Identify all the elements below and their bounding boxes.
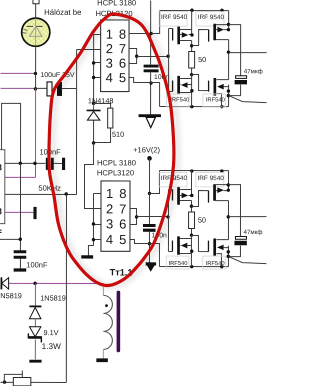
svg-text:1: 1 — [106, 186, 113, 201]
wire (U1 pin8) — [129, 32, 151, 34]
wire (U1 pin5) — [129, 77, 151, 82]
resistor R3 510 — [94, 103, 113, 142]
transistor Q2 IRF9540 — [209, 24, 229, 42]
svg-text:+16V(2): +16V(2) — [133, 145, 160, 154]
wire (to rail1) — [151, 11, 160, 34]
wire (vertical x93.5 lower) — [92, 193, 94, 245]
wire (U1 pin3 stub) — [94, 61, 101, 63]
op-amp U1 HCPL3120 — [101, 20, 129, 92]
junction — [227, 94, 230, 97]
wire (U2 pins 6-7 bracket) — [130, 208, 136, 224]
svg-text:2: 2 — [106, 41, 113, 56]
trimmer R2 — [0, 370, 66, 386]
wire (U1 pin4 stub) — [94, 76, 101, 78]
svg-text:8: 8 — [0, 206, 2, 216]
wire (y194 net) — [4, 193, 76, 195]
wire (U2 pin5) — [130, 239, 149, 243]
svg-text:7: 7 — [119, 201, 126, 216]
junction — [190, 205, 193, 208]
label box Q8 — [203, 256, 226, 269]
junction — [190, 33, 193, 36]
wire (Q5 drain node) — [190, 201, 192, 212]
transistor Q6 IRF9540 — [208, 184, 228, 202]
junction — [33, 162, 36, 165]
junction — [220, 9, 223, 12]
resistor R5 50 — [189, 212, 195, 236]
svg-text:47мкф: 47мкф — [244, 68, 263, 75]
label box Q1 — [159, 12, 187, 26]
ground — [139, 114, 161, 127]
junction — [227, 255, 230, 258]
wire (Q1 drain node) — [191, 41, 193, 52]
junction — [92, 76, 95, 79]
transistor Q1 IRF9540 — [169, 27, 192, 45]
junction — [166, 215, 169, 218]
wire (y163 net) — [5, 162, 46, 164]
wire (Q5 source to rail) — [190, 171, 192, 196]
wire (diagonal out 1) — [229, 96, 267, 103]
wire (U2 pin3 stub) — [93, 223, 100, 225]
node +16V(2) terminal — [147, 156, 152, 161]
wire (source node vertical) — [228, 85, 230, 107]
wire (jog to ground) — [88, 245, 93, 255]
svg-text:IRF 9540: IRF 9540 — [198, 175, 225, 182]
label box Q4 — [203, 94, 226, 107]
junction — [135, 55, 138, 58]
wire (rail1 gnd) — [160, 106, 229, 108]
svg-text:1.3W: 1.3W — [42, 342, 61, 351]
junction — [149, 81, 152, 84]
wire (to bottom rail1) — [151, 83, 160, 107]
wire (purple) — [34, 318, 36, 326]
junction — [227, 50, 230, 53]
wire (source node vertical bank2) — [227, 246, 229, 267]
wire (rail2 +V) — [160, 170, 229, 172]
transistor Q7 IRF540 — [168, 236, 191, 254]
svg-text:3: 3 — [106, 56, 113, 71]
svg-text:8: 8 — [119, 27, 126, 42]
diode D4 1N4148 — [87, 103, 101, 142]
junction — [19, 162, 22, 165]
wire (purple net, left) — [1, 72, 36, 74]
wire (gate feed bank2) — [136, 216, 168, 218]
wire — [35, 73, 37, 88]
svg-text:IRF 9540: IRF 9540 — [161, 175, 188, 182]
wire (purple into box pin) — [5, 176, 36, 178]
svg-text:IRF 9540: IRF 9540 — [161, 14, 188, 21]
transistor Q3 IRF540 — [169, 76, 192, 94]
capacitor plate C3 — [33, 207, 36, 219]
junction — [92, 222, 95, 225]
wire (to cap 47 bank2) — [228, 185, 240, 237]
svg-text:5: 5 — [119, 70, 126, 85]
svg-text:2: 2 — [106, 201, 113, 216]
svg-text:9.1V: 9.1V — [43, 328, 58, 337]
wire (diagonal out 2) — [228, 257, 266, 264]
wire (to bottom rail2) — [149, 244, 159, 267]
wire (purple net, left) — [1, 87, 36, 89]
svg-text:IRF540: IRF540 — [170, 96, 189, 103]
svg-text:1N5819: 1N5819 — [0, 291, 22, 300]
wire (output1 to right) — [229, 52, 267, 54]
capacitor C5 100n — [144, 65, 159, 115]
wire (Q1 source to rail) — [191, 11, 193, 35]
junction — [34, 87, 37, 90]
junction — [227, 250, 230, 253]
wire (U2 pin1) — [93, 192, 100, 194]
op-amp U2 HCPL3120 — [101, 181, 130, 251]
junction — [92, 238, 95, 241]
ground — [146, 262, 156, 271]
ground — [14, 268, 27, 271]
svg-text:47мкф: 47мкф — [244, 229, 263, 236]
resistor R4 50 — [189, 51, 195, 74]
wire (purple net y283) — [1, 282, 103, 284]
svg-text:50: 50 — [198, 215, 206, 224]
svg-text:8: 8 — [119, 186, 126, 201]
wire (cross to Q2 gate) — [192, 30, 209, 46]
junction — [227, 215, 230, 218]
diode D2 1N5819 — [29, 306, 41, 318]
shadow of red marker ellipse — [53, 15, 178, 287]
svg-text:HCPL3120: HCPL3120 — [97, 168, 134, 177]
transistor Q8 IRF540 — [208, 238, 228, 266]
transistor Q4 IRF540 — [209, 78, 229, 107]
junction — [34, 72, 37, 75]
ground — [29, 360, 41, 363]
capacitor C7 100n — [143, 194, 156, 263]
label box Q2 — [196, 12, 224, 26]
wire (rail1 +V) — [160, 10, 229, 12]
svg-text:100uF 25V: 100uF 25V — [40, 72, 75, 79]
wire (vertical x66) — [65, 194, 67, 382]
svg-text:HCPL 3180: HCPL 3180 — [97, 158, 136, 167]
wire (purple pin y213) — [4, 211, 33, 213]
wire — [35, 46, 37, 73]
wire (Q2 drain / output node) — [228, 40, 230, 80]
ground — [81, 255, 93, 258]
svg-text:IRF540: IRF540 — [168, 260, 187, 267]
junction — [92, 61, 95, 64]
label box Q5 — [159, 172, 187, 186]
wire (U1 pin1) — [94, 33, 101, 35]
wire (box top pin) — [2, 103, 21, 163]
wire (Q6 drain / output node) — [227, 201, 229, 240]
junction — [19, 238, 22, 241]
wire (to Q8 gate) — [191, 236, 208, 252]
wire (to Q4 gate) — [192, 75, 209, 91]
svg-text:7: 7 — [119, 41, 126, 56]
wire (gate bus bank2) — [167, 190, 169, 252]
label fragment (clipped) — [0, 230, 2, 231]
transistor Q5 IRF9540 — [168, 187, 191, 205]
junction — [190, 250, 193, 253]
lamp LA1 — [22, 18, 50, 46]
svg-text:5: 5 — [119, 232, 126, 247]
connector box (left, clipped) — [0, 150, 5, 224]
junction — [220, 169, 223, 172]
svg-text:50: 50 — [198, 55, 206, 64]
svg-text:6: 6 — [119, 56, 126, 71]
junction — [190, 44, 193, 47]
diode D1 1N5819 (left, clipped) — [1, 277, 8, 289]
wire (vertical x76) — [75, 49, 77, 194]
wire (rail2 gnd) — [159, 266, 228, 268]
wire — [35, 3, 37, 18]
junction — [149, 32, 152, 35]
wire (rail corner to Q2 source) — [228, 11, 230, 30]
junction — [190, 169, 193, 172]
junction — [227, 28, 230, 31]
wire (vertical x20) — [19, 163, 21, 250]
junction — [33, 282, 36, 285]
wire (output2 to right) — [228, 216, 266, 218]
wire (+16V feed) — [148, 159, 150, 194]
junction — [190, 233, 193, 236]
transformer core — [117, 292, 121, 350]
zener D3 9.1V — [28, 327, 41, 343]
wire (to cap 47) — [229, 25, 241, 76]
junction — [92, 102, 95, 105]
junction — [166, 55, 169, 58]
ground — [96, 358, 108, 362]
svg-text:IRF540: IRF540 — [206, 260, 225, 267]
capacitor plate (clipped pair) — [62, 158, 65, 170]
svg-text:100nF: 100nF — [26, 260, 48, 269]
wire (U1 pins 6-7 bracket) — [129, 48, 137, 63]
wire (gate bus bank1) — [168, 29, 170, 92]
red marker ellipse — [49, 14, 174, 286]
wire (U1 pin2) — [77, 48, 101, 50]
wire (to rail2) — [149, 171, 159, 194]
junction — [190, 9, 193, 12]
junction — [135, 215, 138, 218]
resistor R1 (top, clipped) — [33, 0, 39, 4]
svg-text:1N5819: 1N5819 — [40, 293, 66, 302]
svg-text:Hálózat be: Hálózat be — [44, 8, 81, 17]
junction — [220, 105, 223, 108]
label box Q6 — [196, 172, 224, 186]
junction — [190, 89, 193, 92]
svg-text:IRF 9540: IRF 9540 — [198, 14, 225, 21]
wire (left edge to junction) — [0, 238, 20, 240]
junction — [64, 192, 67, 195]
junction — [148, 192, 151, 195]
wire (U2 pin4 stub) — [93, 238, 100, 240]
inductor L1 (transformer primary) — [103, 283, 112, 358]
junction — [190, 194, 193, 197]
junction — [190, 73, 193, 76]
svg-text:HCPL 3180: HCPL 3180 — [97, 0, 136, 7]
svg-text:6: 6 — [119, 216, 126, 231]
label box Q3 — [166, 94, 189, 107]
junction — [148, 242, 151, 245]
wire (Q3 node vertical) — [191, 75, 193, 107]
junction — [190, 265, 193, 268]
wire (vertical x93.5) — [93, 34, 95, 103]
svg-text:3: 3 — [106, 216, 113, 231]
capacitor C6 47mkf — [229, 76, 247, 96]
wire (purple) — [34, 283, 36, 306]
svg-text:4: 4 — [106, 70, 113, 85]
junction — [92, 141, 95, 144]
pin numbers U1 — [106, 27, 127, 86]
junction — [227, 183, 230, 186]
wire (purple) — [34, 339, 36, 359]
svg-text:510: 510 — [112, 130, 124, 139]
capacitor C2 100nF — [46, 158, 63, 170]
wire (cross to Q6 gate) — [191, 191, 208, 207]
junction — [220, 265, 223, 268]
svg-text:8: 8 — [0, 162, 2, 172]
capacitor C4 100nF — [14, 250, 27, 268]
wire (Q7 node vertical) — [190, 236, 192, 267]
wire (to U2 pin2) — [84, 142, 100, 208]
junction — [227, 188, 230, 191]
svg-text:100n: 100n — [154, 74, 169, 81]
svg-text:IRF540: IRF540 — [206, 96, 225, 103]
wire (rail corner to Q6 source) — [228, 171, 230, 191]
junction — [227, 89, 230, 92]
wire (gate feed bank1) — [137, 56, 169, 58]
node (winding polarity dot) — [105, 304, 108, 307]
svg-text:50KHz: 50KHz — [38, 184, 61, 193]
junction — [190, 105, 193, 108]
capacitor C8 47mkf — [228, 236, 246, 256]
svg-text:1: 1 — [106, 27, 113, 42]
wire (purple vertical) — [35, 88, 37, 177]
capacitor C1 100uF 25V — [36, 82, 77, 96]
wire (VCC1 from top) — [150, 1, 152, 65]
junction — [227, 23, 230, 26]
svg-text:4: 4 — [106, 232, 113, 247]
pin numbers U2 — [106, 186, 127, 247]
label box Q7 — [166, 256, 189, 269]
